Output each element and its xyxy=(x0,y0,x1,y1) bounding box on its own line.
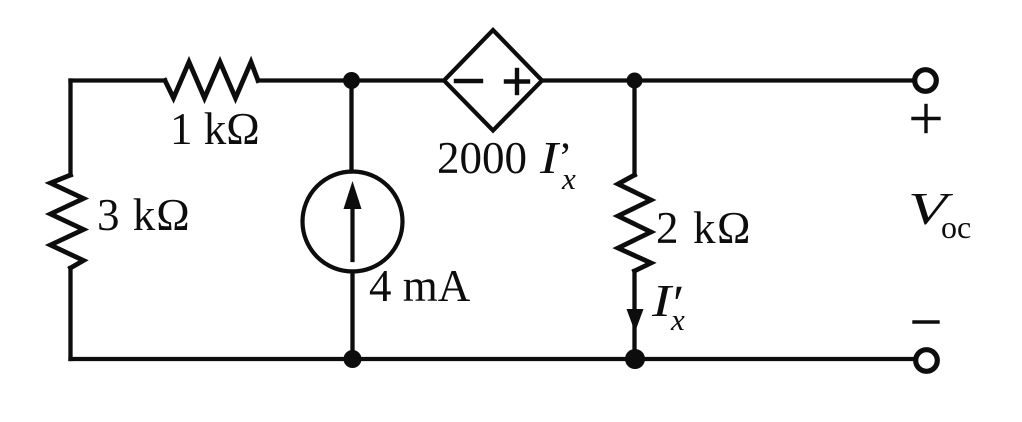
svg-text:2000: 2000 xyxy=(437,133,527,183)
wire current source to bottom xyxy=(350,272,354,360)
resistor R3 2 kOhm zigzag xyxy=(618,175,651,271)
dependent source U1 diamond xyxy=(444,30,542,131)
plus sign inside diamond xyxy=(506,79,528,83)
wire left vertical upper xyxy=(68,81,72,176)
arrowhead for Ix current xyxy=(627,309,644,332)
svg-text:4 mA: 4 mA xyxy=(369,261,471,311)
terminal bottom open circle xyxy=(916,350,938,372)
wire node A down to current source xyxy=(349,81,353,172)
node B junction dot xyxy=(627,73,643,89)
resistor R2 3 kOhm zigzag xyxy=(51,175,84,268)
wire left vertical lower xyxy=(68,268,72,359)
bottom middle junction dot xyxy=(344,350,362,368)
current source I1 circle xyxy=(303,172,403,272)
bottom right junction dot xyxy=(625,349,645,369)
wire bottom horizontal xyxy=(71,357,916,361)
wire resistor R3 to bottom node xyxy=(632,271,636,359)
wire diamond to top terminal xyxy=(542,78,914,82)
plus sign at top terminal xyxy=(913,117,939,120)
resistor R1 1 kOhm zigzag xyxy=(165,62,258,98)
current source arrowhead xyxy=(344,181,362,209)
svg-text:x: x xyxy=(561,161,576,196)
wire node B down to resistor R3 xyxy=(632,81,636,176)
svg-text:1 kΩ: 1 kΩ xyxy=(170,104,260,154)
svg-text:3 kΩ: 3 kΩ xyxy=(97,190,191,240)
svg-text:x: x xyxy=(670,302,685,337)
node A junction dot xyxy=(343,72,360,89)
current source arrow shaft xyxy=(350,203,354,260)
svg-text:oc: oc xyxy=(941,209,971,245)
minus sign inside diamond xyxy=(456,79,481,83)
minus sign at bottom terminal xyxy=(914,320,938,323)
wire top-left horizontal xyxy=(71,78,166,82)
svg-text:2 kΩ: 2 kΩ xyxy=(656,203,752,253)
wire resistor R1 to diamond xyxy=(258,78,444,82)
terminal top open circle xyxy=(915,70,937,92)
